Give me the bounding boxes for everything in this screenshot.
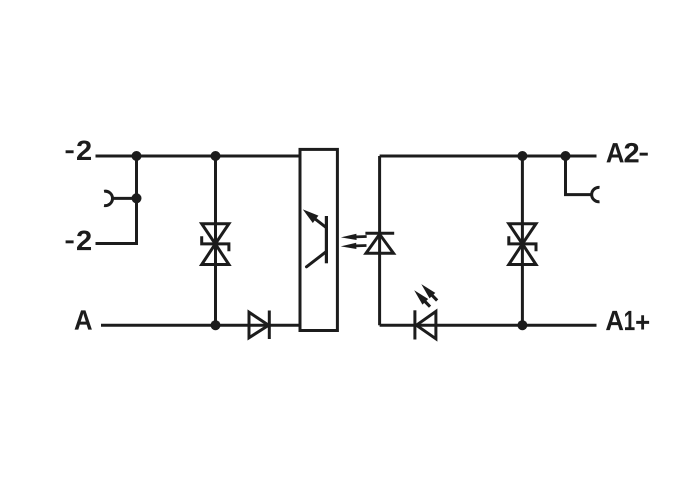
jumper contact arc (right) — [592, 187, 600, 201]
optocoupler box U1 — [300, 149, 337, 330]
light arrow 1 into phototransistor — [341, 234, 357, 240]
light arrow 2 into phototransistor — [341, 243, 357, 249]
junction: -2 rail / branch — [132, 151, 142, 161]
wire top-left rail (-2 to optocoupler box) — [96, 155, 301, 158]
wire bottom-right rail (loop corner to A1+) — [380, 324, 597, 327]
wire stub from jumper arc to junction — [111, 197, 137, 200]
optocoupler LED (on right loop left vertical) — [365, 233, 394, 253]
phototransistor inside box — [303, 209, 327, 266]
wire top-right rail (loop corner to A2-) — [380, 155, 597, 158]
wire drop from A2- junction to jumper arc — [566, 156, 594, 195]
junction: A1+ rail / right TVS branch — [517, 320, 527, 330]
wire vertical branch from -2 rail down to second -2 — [96, 156, 137, 244]
junction: -2 rail / left TVS branch — [211, 151, 221, 161]
wire right suppressor branch vertical — [521, 156, 524, 325]
terminal label -2 (bottom) — [66, 240, 74, 243]
junction: A rail / left TVS branch — [211, 320, 221, 330]
terminal label A1+ — [606, 311, 649, 330]
junction dots — [132, 151, 571, 330]
suppressor diode (left TVS) — [202, 224, 229, 265]
wire right loop left vertical — [378, 156, 381, 325]
junction: A2- rail / jumper drop — [561, 151, 571, 161]
status LED on A1+ rail — [415, 310, 436, 339]
jumper contact arc (left) — [104, 191, 112, 205]
diode D1 on A rail — [249, 311, 269, 340]
suppressor diode (right TVS) — [509, 224, 536, 265]
junction: jumper on -2 branch — [132, 193, 142, 203]
status LED emission arrow 2 — [414, 290, 428, 304]
wire left suppressor branch vertical — [214, 156, 217, 325]
terminal label A — [75, 310, 92, 329]
terminal label A2- — [607, 143, 639, 163]
wire bottom-left rail (A to optocoupler box) — [101, 324, 300, 327]
junction: A2- rail / right TVS branch — [517, 151, 527, 161]
status LED emission arrow 1 — [421, 284, 435, 298]
terminal label -2 (top) — [66, 150, 74, 153]
